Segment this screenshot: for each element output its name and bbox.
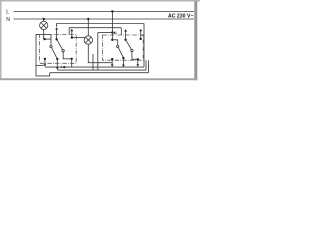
svg-text:L: L [6,10,9,16]
svg-text:N: N [6,17,10,23]
svg-text:AC 230 V~: AC 230 V~ [168,14,194,20]
